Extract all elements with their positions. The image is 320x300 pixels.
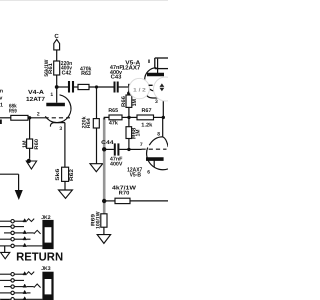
svg-text:R62: R62 xyxy=(69,169,75,181)
svg-text:12AT7: 12AT7 xyxy=(26,96,46,103)
svg-text:12AX7: 12AX7 xyxy=(122,64,141,71)
svg-text:2: 2 xyxy=(37,111,40,117)
svg-text:R61: R61 xyxy=(48,63,54,74)
svg-text:R59: R59 xyxy=(9,109,17,115)
svg-text:41: 41 xyxy=(0,102,3,108)
svg-text:0v: 0v xyxy=(0,95,2,101)
svg-text:400V: 400V xyxy=(110,161,123,167)
svg-text:6: 6 xyxy=(147,170,150,176)
svg-text:R70: R70 xyxy=(119,190,130,196)
svg-text:RETURN: RETURN xyxy=(16,250,63,263)
svg-text:R63: R63 xyxy=(81,71,91,77)
svg-text:1M: 1M xyxy=(136,130,142,137)
svg-text:47k: 47k xyxy=(109,121,118,127)
svg-text:C43: C43 xyxy=(111,75,122,81)
svg-text:3: 3 xyxy=(155,99,158,105)
svg-text:R67: R67 xyxy=(142,108,152,114)
svg-text:JK3: JK3 xyxy=(41,266,50,272)
svg-text:1.2k: 1.2k xyxy=(141,122,152,128)
svg-text:5k6: 5k6 xyxy=(55,168,61,180)
svg-text:C42: C42 xyxy=(62,70,72,76)
svg-text:1 / 2: 1 / 2 xyxy=(133,87,146,93)
svg-text:V4-A: V4-A xyxy=(28,89,45,96)
svg-text:3: 3 xyxy=(59,126,62,132)
svg-text:7: 7 xyxy=(140,142,143,148)
svg-text:1M: 1M xyxy=(132,99,138,106)
svg-text:R60: R60 xyxy=(34,139,40,150)
svg-text:R64: R64 xyxy=(86,118,92,128)
svg-text:1M: 1M xyxy=(22,140,28,148)
svg-text:1: 1 xyxy=(50,92,53,98)
svg-text:V5-B: V5-B xyxy=(130,172,142,179)
svg-text:100/1W: 100/1W xyxy=(96,211,102,229)
svg-text:C44: C44 xyxy=(101,140,113,146)
svg-text:8: 8 xyxy=(157,132,160,138)
svg-text:R65: R65 xyxy=(108,108,118,114)
svg-text:R66: R66 xyxy=(121,96,127,107)
svg-text:0n: 0n xyxy=(0,89,3,95)
